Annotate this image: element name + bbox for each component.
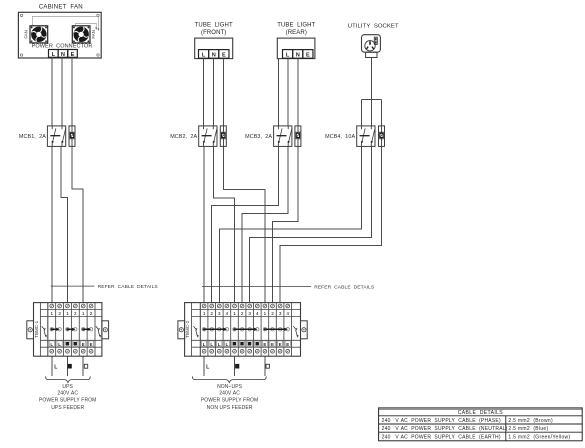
svg-text:E: E — [306, 52, 310, 58]
TBMC-1 left mounting tab — [27, 321, 34, 339]
svg-text:CABINET FAN: CABINET FAN — [39, 4, 83, 11]
svg-text:TUBE LIGHT: TUBE LIGHT — [195, 22, 233, 28]
svg-text:L: L — [58, 342, 61, 347]
MCB3 2A — [274, 126, 292, 146]
svg-text:E: E — [90, 342, 93, 347]
svg-text:L: L — [50, 342, 53, 347]
wire MCB2 N to TBMC-2 N1 — [213, 146, 234, 302]
svg-text:TBMC-2: TBMC-2 — [185, 320, 190, 338]
terminal block TBMC-1 outline — [34, 303, 102, 357]
table row earth cable — [382, 434, 571, 440]
TBMC-1 right feed arrow — [96, 326, 101, 337]
svg-text:2.5 mm2 (Blue): 2.5 mm2 (Blue) — [508, 426, 548, 432]
svg-text:4: 4 — [256, 311, 259, 316]
wire socket N to MCB4 — [370, 100, 372, 126]
svg-text:(FRONT): (FRONT) — [201, 30, 226, 36]
MCB1 2A — [47, 126, 65, 146]
svg-text:3: 3 — [218, 311, 221, 316]
utility socket base — [366, 52, 377, 57]
utility socket — [362, 35, 381, 53]
svg-text:1: 1 — [50, 311, 53, 316]
svg-text:MCB4, 10A: MCB4, 10A — [325, 134, 355, 140]
wire tube rear L to MCB3 — [277, 58, 279, 126]
cable group tick NON-UPS — [202, 285, 311, 287]
svg-text:2: 2 — [241, 311, 244, 316]
svg-text:1: 1 — [233, 311, 236, 316]
svg-text:(REAR): (REAR) — [286, 30, 307, 36]
table row neutral cable — [382, 426, 549, 432]
wire socket L to MCB4 — [361, 100, 363, 126]
TBMC-2 right feed arrow — [293, 326, 298, 337]
terminal block TBMC-2 outline — [185, 303, 301, 357]
svg-text:E: E — [271, 342, 274, 347]
TBMC-2 left mounting tab — [178, 321, 185, 339]
svg-text:N: N — [212, 52, 216, 58]
svg-text:1: 1 — [82, 311, 85, 316]
wire TBMC-2 feeder E — [264, 356, 266, 376]
svg-text:L: L — [218, 342, 221, 347]
svg-text:POWER CONNECTOR: POWER CONNECTOR — [32, 43, 93, 49]
tube light rear box — [277, 38, 315, 59]
svg-text:NON UPS FEEDER: NON UPS FEEDER — [207, 405, 253, 411]
svg-text:1.5 mm2 (Green/Yellow): 1.5 mm2 (Green/Yellow) — [508, 434, 570, 440]
wire TBMC-1 feeder L — [51, 356, 53, 376]
TBMC-1 left feed arrow — [42, 326, 47, 337]
svg-text:2: 2 — [74, 311, 77, 316]
TBMC-1 top screw terminals — [50, 304, 93, 308]
svg-text:E: E — [279, 342, 282, 347]
wire marker E (NON-UPS feeder) — [266, 364, 269, 368]
earth feed-through terminal T4 — [379, 126, 385, 146]
svg-text:E: E — [263, 342, 266, 347]
svg-text:4: 4 — [286, 311, 289, 316]
label NON-UPS feeder — [201, 384, 258, 411]
wire cabinet N to MCB1 — [61, 57, 63, 126]
wire cabinet E through T1 to TBMC-1 terminal 5 — [72, 57, 83, 302]
svg-text:TUBE LIGHT: TUBE LIGHT — [277, 22, 315, 28]
svg-text:240 V AC POWER SUPPLY CAB: 240 V AC POWER SUPPLY CABLE (NEUTRAL) — [382, 426, 508, 432]
MCB4 10A — [357, 126, 375, 146]
svg-text:POWER SUPPLY FROM: POWER SUPPLY FROM — [39, 398, 96, 404]
TBMC-1 jumper links — [50, 328, 93, 331]
svg-text:2: 2 — [271, 311, 274, 316]
wire MCB4 L to TBMC-2 L3 — [219, 146, 361, 302]
svg-text:MCB1, 2A: MCB1, 2A — [19, 134, 46, 140]
wire MCB3 N to TBMC-2 N2 — [242, 146, 288, 302]
svg-text:REFER CABLE DETAILS: REFER CABLE DETAILS — [98, 284, 159, 290]
svg-text:3: 3 — [248, 311, 251, 316]
power connector terminal strip L N E — [49, 50, 78, 58]
label TUBE LIGHT (FRONT) — [195, 22, 233, 36]
svg-text:FAN: FAN — [23, 30, 28, 39]
wire TBMC-1 feeder N — [67, 356, 69, 376]
wire MCB1 N to TBMC-1 terminal 3 — [61, 146, 68, 302]
wire tube front L to MCB2 — [203, 58, 205, 126]
wire marker N (UPS feeder) — [68, 364, 72, 369]
TBMC-1 wire letter cells — [49, 341, 94, 347]
cable details table — [379, 408, 583, 441]
fan right — [72, 26, 90, 43]
earth feed-through terminal T1 — [69, 126, 75, 146]
TBMC-2 left feed arrow — [194, 326, 199, 337]
MCB2 2A — [199, 126, 217, 146]
table row phase cable — [382, 418, 553, 424]
svg-text:CABLE DETAILS: CABLE DETAILS — [458, 410, 504, 416]
svg-text:UPS: UPS — [62, 384, 73, 390]
TBMC-2 bottom screw terminals — [202, 349, 289, 353]
tube light front box — [195, 38, 233, 59]
svg-text:2: 2 — [58, 311, 61, 316]
brace UPS feeder group — [46, 376, 91, 382]
brace NON-UPS feeder group — [192, 376, 266, 382]
svg-text:1: 1 — [203, 311, 206, 316]
svg-text:L: L — [286, 52, 290, 58]
svg-text:FAN: FAN — [91, 30, 96, 39]
svg-text:L: L — [202, 52, 206, 58]
svg-text:240V AC: 240V AC — [57, 391, 78, 397]
svg-text:240V AC: 240V AC — [219, 391, 240, 397]
svg-text:240 V AC POWER SUPPLY CAB: 240 V AC POWER SUPPLY CABLE (EARTH) — [382, 434, 501, 440]
wire TBMC-2 feeder N — [234, 356, 236, 376]
wire TBMC-1 feeder E — [82, 356, 84, 376]
TBMC-2 top screw terminals — [202, 304, 289, 308]
TBMC-1 right mounting tab — [102, 321, 109, 339]
fan left — [30, 26, 48, 43]
earth feed-through terminal T3 — [295, 126, 301, 146]
svg-text:E: E — [222, 52, 226, 58]
wire MCB4 N to TBMC-2 N3 — [250, 146, 372, 302]
svg-text:UPS FEEDER: UPS FEEDER — [51, 405, 84, 411]
cable group tick UPS — [51, 285, 95, 287]
svg-text:1: 1 — [264, 311, 267, 316]
TBMC-2 terminal numbers — [203, 311, 290, 316]
earth feed-through terminal T2 — [220, 126, 226, 146]
svg-text:L: L — [203, 342, 206, 347]
label UPS feeder — [39, 384, 96, 411]
svg-text:L: L — [52, 52, 56, 58]
wire tube front N to MCB2 — [212, 58, 214, 126]
wire socket E through T4 to TBMC-2 E3 — [280, 100, 381, 303]
wire MCB3 L to TBMC-2 L2 — [212, 146, 279, 302]
svg-text:E: E — [71, 52, 75, 58]
svg-text:N: N — [296, 52, 300, 58]
wire socket split junction — [362, 99, 382, 101]
wire TBMC-2 feeder L — [203, 356, 205, 376]
wire marker E (UPS feeder) — [84, 364, 87, 368]
svg-text:E: E — [82, 342, 85, 347]
wire utility socket drop — [370, 58, 372, 100]
cabinet fan enclosure box — [18, 12, 101, 58]
wire tube front E through T2 to TBMC-2 E1 — [223, 58, 265, 302]
svg-text:3: 3 — [279, 311, 282, 316]
svg-text:MCB3, 2A: MCB3, 2A — [245, 134, 272, 140]
svg-text:TBMC-1: TBMC-1 — [34, 320, 39, 338]
wire marker N (NON-UPS feeder) — [235, 364, 239, 369]
svg-text:REFER CABLE DETAILS: REFER CABLE DETAILS — [314, 284, 375, 290]
wire cabinet L to MCB1 — [51, 57, 53, 126]
TBMC-1 terminal numbers — [50, 311, 92, 316]
wire MCB1 L to TBMC-1 terminal 1 — [51, 146, 53, 302]
svg-text:MCB2, 2A: MCB2, 2A — [170, 134, 197, 140]
svg-text:NON−UPS: NON−UPS — [217, 384, 243, 390]
svg-text:L: L — [226, 342, 229, 347]
svg-text:L: L — [210, 342, 213, 347]
svg-text:E: E — [286, 342, 289, 347]
label TUBE LIGHT (REAR) — [277, 22, 315, 36]
TBMC-2 jumper links — [202, 328, 289, 331]
TBMC-2 wire letter cells — [202, 341, 291, 347]
svg-text:240 V AC POWER SUPPLY CAB: 240 V AC POWER SUPPLY CABLE (PHASE) — [382, 418, 501, 424]
svg-text:2: 2 — [90, 311, 93, 316]
TBMC-1 bottom screw terminals — [50, 349, 93, 353]
svg-text:2: 2 — [210, 311, 213, 316]
wire tube rear E through T3 to TBMC-2 E2 — [273, 58, 298, 302]
svg-text:POWER SUPPLY FROM: POWER SUPPLY FROM — [201, 398, 258, 404]
svg-text:UTILITY SOCKET: UTILITY SOCKET — [348, 24, 399, 30]
fan internal wiring — [32, 16, 99, 31]
svg-text:4: 4 — [226, 311, 229, 316]
wire MCB2 L to TBMC-2 L1 — [203, 146, 205, 302]
wire tube rear N to MCB3 — [287, 58, 289, 126]
TBMC-2 right mounting tab — [301, 321, 308, 339]
svg-text:N: N — [61, 52, 65, 58]
svg-text:1: 1 — [66, 311, 69, 316]
svg-text:2.5 mm2 (Brown): 2.5 mm2 (Brown) — [508, 418, 553, 424]
